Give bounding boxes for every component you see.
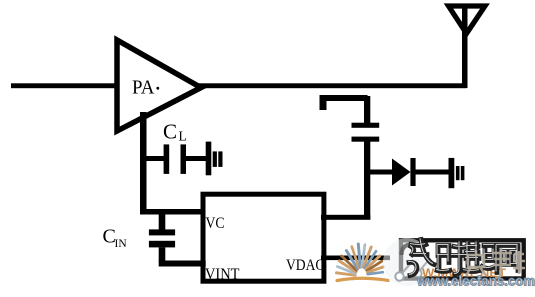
wire VC (to pin VC) (140, 209, 205, 215)
wire coupler vertical lower (364, 142, 370, 220)
wire PA output to antenna corner (197, 83, 467, 88)
wire input to PA (11, 83, 117, 88)
watermark glyphs (stylized) (409, 240, 518, 276)
coupler hook (directional coupler line) (320, 95, 368, 110)
wire CL branch (143, 156, 165, 161)
svg-text:VINT: VINT (205, 266, 240, 283)
wire coupler vertical upper (364, 96, 370, 123)
watermark fan rays (337, 244, 389, 281)
svg-text:IN: IN (115, 238, 128, 250)
label CL (163, 120, 187, 144)
capacitor CIN (149, 211, 175, 262)
label CIN (103, 226, 128, 251)
antenna ANT (449, 6, 486, 34)
op-amp PA (power amplifier triangle) (117, 40, 201, 131)
diode D1 (392, 158, 416, 186)
watermark blue url text (416, 273, 535, 290)
svg-text:C: C (163, 120, 177, 144)
watermark overlapping gray glyph outlines (466, 248, 525, 278)
wire VDAC output (321, 256, 390, 261)
wire VINT (to pin VINT) (159, 261, 206, 267)
wire box right-top to coupler junction (321, 215, 370, 220)
svg-text:L: L (179, 129, 187, 144)
svg-text:VDAC: VDAC (286, 257, 325, 274)
svg-text:PA: PA (132, 77, 155, 99)
wire diode to ground (416, 170, 450, 175)
watermark circle logo (383, 238, 431, 286)
svg-text:www.elecfans.com: www.elecfans.com (416, 273, 535, 289)
ground for CL (206, 142, 223, 176)
watermark frame box (401, 240, 524, 278)
wire diode branch (367, 170, 393, 175)
capacitor C2 (coupling cap) (352, 123, 380, 142)
capacitor CL (164, 144, 206, 174)
svg-text:VC: VC (206, 215, 225, 232)
wire PA bottom vertical (140, 112, 147, 215)
ground for diode (449, 158, 465, 188)
wire antenna feed vertical (462, 5, 468, 88)
label PA (132, 77, 159, 99)
IC box U1 (PA controller) (203, 194, 324, 281)
